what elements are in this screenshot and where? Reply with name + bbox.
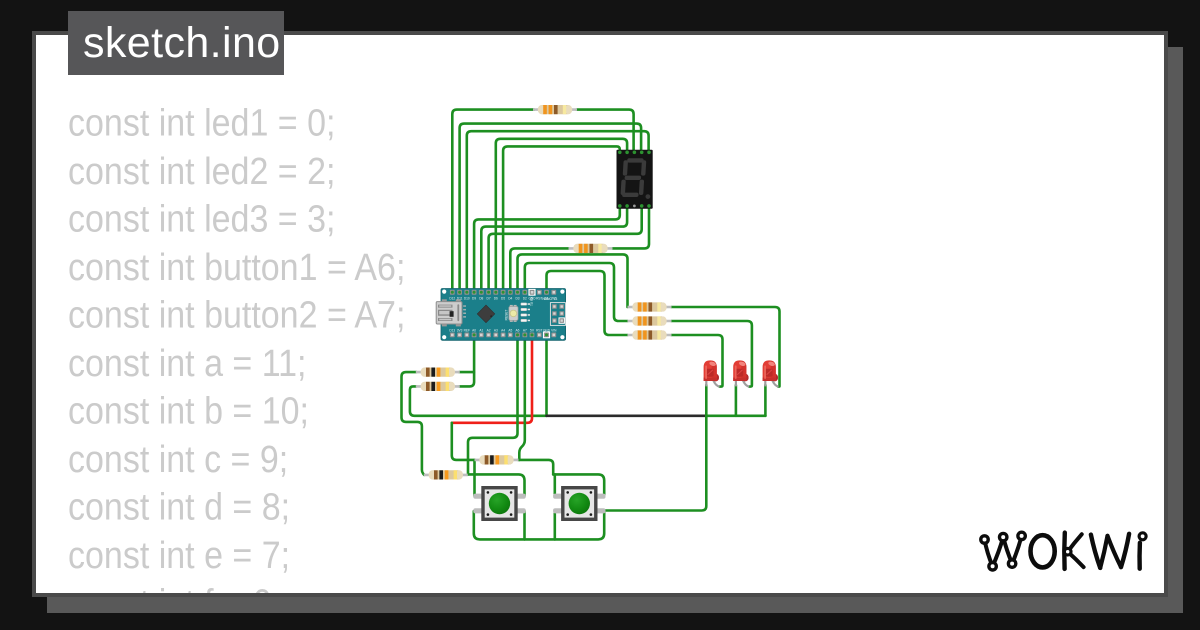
sketch.ino title tab xyxy=(68,11,284,75)
wire 7seg pin7 to D8 xyxy=(481,206,627,292)
pushbutton button1 xyxy=(473,488,525,520)
pushbutton button2 xyxy=(553,488,605,520)
svg-text:GND: GND xyxy=(543,328,551,332)
svg-text:RESET: RESET xyxy=(505,310,509,321)
resistor RM 10kohm xyxy=(475,455,519,464)
svg-text:VIN: VIN xyxy=(551,328,557,332)
resistor R2 330ohm xyxy=(569,244,613,253)
7-segment display U2 xyxy=(617,150,653,209)
resistor R1 330ohm xyxy=(533,105,577,114)
svg-text:REF: REF xyxy=(464,328,470,332)
wire D10 to 7seg pin5 xyxy=(467,131,649,292)
LED LED3 (red) xyxy=(763,360,779,386)
resistor R5 330ohm xyxy=(628,330,672,339)
wire LED1 cathode to button2 pin xyxy=(604,416,706,511)
wire 7seg pin6 to D9 xyxy=(474,206,620,292)
svg-text:A7: A7 xyxy=(523,328,527,332)
svg-text:A5: A5 xyxy=(508,328,512,332)
wire GND pin down xyxy=(545,335,548,416)
wire 5V red xyxy=(452,335,532,423)
resistor R4 330ohm xyxy=(628,316,672,325)
wire resistor R2 to D4 xyxy=(510,248,568,292)
svg-text:D6: D6 xyxy=(494,296,498,300)
svg-text:A0: A0 xyxy=(472,328,476,332)
wire D11 to 7seg pin4 xyxy=(460,124,641,293)
svg-text:D10: D10 xyxy=(464,296,470,300)
svg-text:A3: A3 xyxy=(494,328,498,332)
svg-text:3V3: 3V3 xyxy=(457,328,463,332)
svg-text:RST: RST xyxy=(536,328,542,332)
wire D2 to resistor R4 xyxy=(525,263,628,321)
svg-text:A4: A4 xyxy=(501,328,505,332)
wire resistor R4 to LED2 anode xyxy=(672,321,752,387)
svg-text:D12: D12 xyxy=(449,296,455,300)
Arduino Nano U1 xyxy=(436,289,565,341)
wire junction to resistor RL1 xyxy=(459,371,474,374)
resistor RL1 10kohm xyxy=(416,368,460,377)
wire LED1 cathode xyxy=(705,385,708,416)
wire button2 top frame xyxy=(553,474,604,495)
wire button1 bottom frame xyxy=(474,511,604,539)
svg-text:D5: D5 xyxy=(501,296,505,300)
wire D5 to 7seg pin1 xyxy=(503,146,620,292)
wire 7seg pin10 to resistor R2 xyxy=(613,206,650,249)
svg-text:D3: D3 xyxy=(515,296,519,300)
resistor RB 10kohm xyxy=(424,470,468,479)
svg-text:D9: D9 xyxy=(472,296,476,300)
svg-text:D13: D13 xyxy=(449,328,455,332)
wire LED2 cathode xyxy=(735,385,738,416)
LED LED2 (red) xyxy=(733,360,749,386)
wire D6 to 7seg pin2 xyxy=(496,139,627,292)
wire RST to resistor R5 xyxy=(547,271,628,335)
svg-text:A6: A6 xyxy=(516,328,520,332)
wire resistor R5 to LED1 anode xyxy=(672,335,723,387)
svg-text:D8: D8 xyxy=(479,296,483,300)
wire LED3 cathode xyxy=(764,385,767,416)
wire LED cathode bus xyxy=(706,414,765,417)
wire resistor R3 to LED3 anode xyxy=(672,307,780,387)
svg-text:TX RX: TX RX xyxy=(530,296,534,306)
wire A7 to resistor RM xyxy=(519,335,525,460)
wire button1 top frame xyxy=(468,474,525,495)
wire resistor RM to button2 top xyxy=(518,460,553,475)
wire resistor RL1 to resistor RB xyxy=(402,372,425,475)
wire resistor RM left leg down xyxy=(473,460,476,475)
wire button1 lower-right stub xyxy=(523,511,526,539)
wire D12 to resistor R1 xyxy=(452,110,534,293)
wire A0 to resistors RL1 RL2 xyxy=(459,335,474,387)
LED LED1 (red) xyxy=(704,360,720,386)
wire resistor R1 to 7seg pin3 xyxy=(577,110,634,153)
svg-text:NANO V3: NANO V3 xyxy=(542,297,557,301)
code listing xyxy=(68,100,405,628)
svg-text:A1: A1 xyxy=(479,328,483,332)
resistor RL2 10kohm xyxy=(416,382,460,391)
wire button1 upper-left stub xyxy=(473,474,476,495)
wire button2 upper-left stub xyxy=(553,474,556,495)
wire resistor RL2 to GND junction xyxy=(410,386,547,415)
resistor R3 330ohm xyxy=(628,302,672,311)
wire button2 lower-left stub xyxy=(553,511,556,539)
svg-text:A2: A2 xyxy=(487,328,491,332)
Wokwi logo xyxy=(972,526,1150,574)
wire 5V junction to resistor RM xyxy=(452,423,475,460)
wire D3 to resistor R3 xyxy=(518,254,628,307)
svg-text:D2: D2 xyxy=(523,296,527,300)
wire 7seg pin9 to D7 xyxy=(489,206,642,292)
wire A6 to button1 xyxy=(468,335,518,475)
wire GND black to LED cathodes xyxy=(547,414,707,417)
svg-text:D4: D4 xyxy=(508,296,512,300)
svg-text:D7: D7 xyxy=(487,296,491,300)
